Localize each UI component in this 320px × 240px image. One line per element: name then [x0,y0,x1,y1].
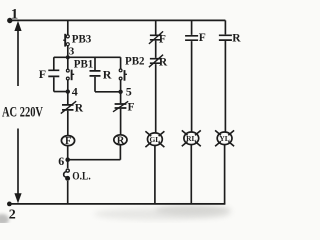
svg-text:PB3: PB3 [72,34,92,46]
svg-text:2: 2 [9,207,16,222]
svg-text:GL: GL [149,135,160,144]
svg-text:PB1: PB1 [74,58,94,70]
svg-text:F: F [128,101,135,113]
svg-text:5: 5 [126,84,132,98]
svg-text:RL: RL [186,134,196,143]
svg-text:PB2: PB2 [125,56,145,68]
svg-text:6: 6 [58,154,64,168]
svg-text:F: F [39,67,46,81]
svg-text:YL: YL [219,134,229,143]
svg-text:3: 3 [69,45,75,57]
svg-text:R: R [103,68,112,82]
svg-text:R: R [117,135,125,146]
svg-text:R: R [159,57,168,69]
svg-text:F: F [199,32,206,44]
svg-text:1: 1 [11,6,18,22]
svg-text:4: 4 [72,84,78,98]
svg-text:F: F [65,136,71,147]
svg-text:O.L.: O.L. [72,171,90,183]
svg-text:R: R [232,33,241,45]
svg-text:F: F [159,34,166,46]
svg-text:R: R [75,103,84,115]
svg-text:AC 220V: AC 220V [2,104,43,120]
